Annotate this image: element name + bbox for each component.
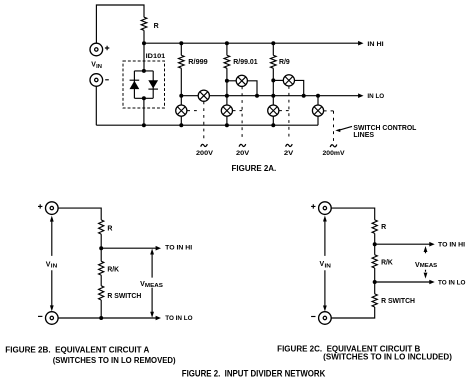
svg-text:R/K: R/K [107, 266, 119, 273]
svg-text:ID101: ID101 [146, 53, 166, 60]
svg-text:R/K: R/K [381, 259, 393, 266]
wire [180, 116, 182, 125]
VMEAS arrow 2B [151, 254, 153, 313]
junction on rail branch3 [271, 123, 275, 127]
node ID101 top [142, 69, 146, 73]
resistor R1 (top series R) [141, 17, 147, 30]
svg-text:R/999: R/999 [188, 59, 208, 66]
switch S4b (to rail) [312, 105, 323, 116]
svg-text:R: R [154, 23, 159, 30]
wire [374, 268, 376, 294]
net TO IN LO 2B [58, 317, 156, 319]
junction on rail below ID101 [142, 123, 146, 127]
node branch2 top [225, 41, 229, 45]
wire [100, 275, 102, 286]
node 2B IN HI tap [99, 246, 103, 250]
node branch3 top [271, 41, 275, 45]
node ID101 bottom [142, 96, 146, 100]
node 2B bottom [99, 316, 103, 320]
svg-text:IN: IN [51, 264, 58, 270]
diode D1 (left, cathode up) [130, 79, 140, 81]
wire R to IN HI node [143, 30, 145, 43]
resistor R/99.01 [224, 55, 230, 68]
wire [180, 68, 182, 96]
terminal 2B + [46, 202, 59, 215]
svg-text:TO IN HI: TO IN HI [165, 245, 192, 252]
svg-text:(SWITCHES TO IN LO INCLUDED): (SWITCHES TO IN LO INCLUDED) [323, 352, 452, 361]
plus sign [105, 46, 109, 50]
node branch1 top [179, 41, 183, 45]
protection device ID101 dashed box [123, 61, 165, 108]
wire jog to switch S2a [227, 80, 237, 82]
resistor 2B R SWITCH [99, 286, 104, 300]
VMEAS arrow 2C [425, 251, 427, 272]
wire [100, 300, 102, 318]
wire [180, 43, 182, 55]
wire [272, 43, 274, 55]
terminal 2C - [319, 312, 332, 325]
ac symbol 20V [239, 144, 246, 147]
wire 2C bottom [331, 307, 375, 318]
net IN LO line [181, 95, 359, 97]
svg-text:LINES: LINES [353, 132, 374, 139]
net TO IN HI 2C [375, 243, 431, 245]
minus sign 2C [311, 316, 315, 318]
wire VIN- down to bottom rail [95, 86, 97, 125]
resistor R/999 [179, 55, 185, 68]
node branch3 tap [271, 78, 275, 82]
control line 200mV [324, 111, 334, 141]
minus sign [105, 79, 109, 81]
switch S1b (to rail) [176, 105, 187, 116]
svg-text:IN: IN [96, 64, 102, 70]
junction on rail branch2 [225, 123, 229, 127]
plus sign 2C [311, 204, 315, 208]
wire 2B top [58, 208, 101, 220]
switch S2b (to rail) [221, 105, 232, 116]
control line 20V [233, 87, 242, 141]
wire IN HI node into ID101 [143, 43, 145, 71]
svg-text:R/99.01: R/99.01 [233, 59, 257, 66]
svg-text:200mV: 200mV [323, 150, 346, 157]
resistor 2B R [99, 220, 104, 234]
svg-text:R SWITCH: R SWITCH [381, 298, 415, 305]
terminal 2C + [319, 202, 332, 215]
svg-text:FIGURE 2. INPUT DIVIDER NETWO: FIGURE 2. INPUT DIVIDER NETWORK [182, 368, 326, 378]
svg-text:R SWITCH: R SWITCH [107, 293, 141, 300]
node branch2 on IN LO [225, 94, 229, 98]
wire 2C top [331, 208, 375, 220]
svg-text:20V: 20V [236, 150, 250, 157]
wire [180, 96, 182, 106]
svg-text:IN HI: IN HI [367, 41, 383, 48]
wire [226, 116, 228, 125]
terminal VIN + [90, 43, 103, 56]
wire jog down to IN LO [294, 80, 303, 95]
resistor 2C R [372, 220, 377, 234]
wire ID101 to rail [143, 98, 145, 125]
plus sign 2B [38, 204, 42, 208]
svg-text:TO IN LO: TO IN LO [438, 279, 465, 286]
wire [226, 68, 228, 105]
wire [272, 116, 274, 125]
control line 2V [279, 86, 289, 140]
wire jog down to IN LO [247, 81, 257, 96]
ac symbol 200mV [330, 145, 337, 148]
wire jog to switch S3a [273, 79, 283, 81]
svg-text:TO IN LO: TO IN LO [165, 315, 192, 322]
node branch3 on IN LO [271, 94, 275, 98]
node on IN LO [302, 94, 306, 98]
resistor R/9 [271, 55, 277, 68]
wire [317, 96, 319, 106]
VIN arrow 2B [51, 221, 53, 306]
svg-text:(SWITCHES TO IN LO REMOVED): (SWITCHES TO IN LO REMOVED) [53, 356, 176, 365]
net IN HI line [144, 42, 359, 44]
svg-text:FIGURE 2B. EQUIVALENT CIRCUIT: FIGURE 2B. EQUIVALENT CIRCUIT A [5, 346, 149, 355]
wire [374, 233, 376, 254]
junction on rail branch1 [179, 123, 183, 127]
svg-text:MEAS: MEAS [420, 263, 438, 269]
node branch4 on IN LO [316, 94, 320, 98]
switch S2a (to IN LO) [236, 75, 247, 86]
net TO IN LO 2C [375, 281, 431, 283]
switch S3a (to IN LO) [283, 75, 294, 86]
wire top-left loop [96, 5, 144, 43]
svg-text:SWITCH CONTROL: SWITCH CONTROL [353, 125, 417, 132]
switch S3b (to rail) [268, 105, 279, 116]
terminal VIN - [90, 74, 103, 87]
svg-text:IN: IN [325, 263, 332, 269]
node 2C IN HI tap [373, 242, 377, 246]
switch S1a (series in IN LO line) [198, 90, 209, 101]
terminal 2B - [46, 312, 59, 325]
resistor 2C R/K [372, 255, 377, 268]
svg-text:FIGURE 2A.: FIGURE 2A. [232, 164, 277, 173]
svg-text:IN LO: IN LO [367, 93, 384, 100]
ac symbol 2V [286, 144, 293, 147]
node 2C IN LO tap [373, 280, 377, 284]
ac symbol 200V [201, 144, 208, 147]
svg-text:TO IN HI: TO IN HI [438, 242, 465, 249]
node branch1 / IN LO start [179, 94, 183, 98]
svg-text:R: R [107, 225, 112, 232]
diode D2 (right, cathode down) [148, 80, 158, 88]
resistor 2C R SWITCH [372, 294, 377, 307]
wire [100, 234, 102, 261]
svg-text:R: R [381, 224, 386, 231]
svg-text:200V: 200V [196, 150, 214, 157]
wire [272, 68, 274, 105]
ID101 inner rect wires [134, 71, 153, 98]
wire [317, 116, 319, 125]
minus sign 2B [38, 315, 42, 317]
control line 200V [187, 101, 204, 140]
node branch2 tap [225, 79, 229, 83]
wire [226, 43, 228, 55]
svg-text:MEAS: MEAS [145, 283, 164, 289]
net TO IN HI 2B [101, 247, 156, 249]
node on IN LO [255, 94, 259, 98]
resistor 2B R/K [99, 261, 104, 275]
svg-text:R/9: R/9 [279, 59, 290, 66]
svg-text:2V: 2V [284, 150, 294, 157]
node at R bottom [142, 41, 146, 45]
VIN arrow 2C [324, 221, 326, 306]
pointer line [339, 126, 352, 130]
wire bottom rail [96, 124, 318, 126]
